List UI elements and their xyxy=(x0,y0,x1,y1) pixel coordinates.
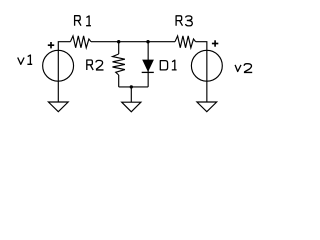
junction node B xyxy=(146,40,149,43)
wire R2 bottom to rail xyxy=(118,75,120,87)
ground under v1 xyxy=(48,102,68,112)
wire v1 top lead to R1 xyxy=(58,42,70,51)
plus polarity mark of v1 xyxy=(48,42,54,48)
diode D1 xyxy=(142,60,154,73)
label v1 xyxy=(18,55,33,64)
junction node A xyxy=(117,40,120,43)
wire R3 to v2 top lead xyxy=(196,42,207,51)
label R3 xyxy=(176,16,192,26)
voltage source v2 xyxy=(191,50,222,81)
wire bottom rail xyxy=(119,86,148,88)
wire v1 bottom lead xyxy=(57,81,59,102)
label R1 xyxy=(75,16,91,26)
wire node A to node B xyxy=(91,41,175,43)
resistor R2 xyxy=(113,54,125,75)
wire mid ground stub xyxy=(130,87,132,102)
wire node A down to R2 xyxy=(118,42,120,54)
plus polarity mark of v2 xyxy=(212,40,218,46)
label D1 xyxy=(160,60,176,70)
resistor R1 xyxy=(70,36,91,48)
label R2 xyxy=(87,60,104,70)
voltage source v1 xyxy=(43,50,74,81)
label v2 xyxy=(235,64,252,73)
ground under v2 xyxy=(197,102,217,112)
junction node C xyxy=(130,85,133,88)
wire v2 bottom lead xyxy=(206,81,208,102)
wire node B down through diode D1 xyxy=(147,42,149,87)
ground under bottom rail xyxy=(122,102,141,112)
resistor R3 xyxy=(175,36,196,48)
